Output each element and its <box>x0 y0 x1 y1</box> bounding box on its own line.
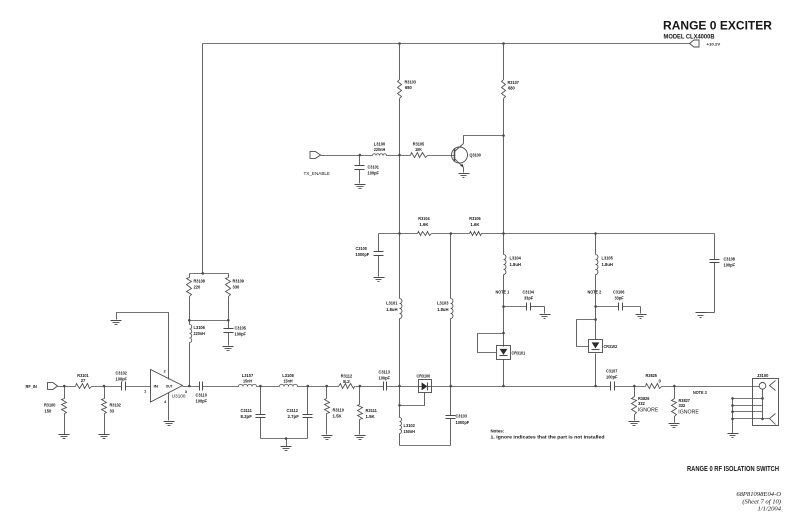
svg-text:R3107: R3107 <box>508 80 520 85</box>
wire: L3107 to L3108 <box>257 386 280 388</box>
inductor L3102 <box>400 418 416 435</box>
ground (U3100 pin 4) <box>164 422 175 426</box>
connector J3100 center pin <box>759 381 775 391</box>
inductor L3101 <box>386 299 402 319</box>
resistor R3827 <box>672 387 699 423</box>
ground (C3100) <box>374 278 385 282</box>
wire: bias block bottom rail <box>190 320 229 322</box>
capacitor C3113 <box>379 370 391 391</box>
svg-text:R3106: R3106 <box>469 216 481 221</box>
svg-text:R3109: R3109 <box>233 279 245 284</box>
svg-text:C3108: C3108 <box>724 256 736 261</box>
svg-text:R3108: R3108 <box>194 279 206 284</box>
node: R3827 junction <box>673 385 676 388</box>
notes text <box>491 428 605 439</box>
wire: CR3100 node to C3107 <box>451 386 611 388</box>
svg-text:TX_ENABLE: TX_ENABLE <box>304 171 331 176</box>
svg-text:C3104: C3104 <box>523 289 535 294</box>
wire: mid rail left <box>379 233 418 235</box>
wire: C3113 to CR3100 <box>387 386 419 388</box>
ground (C3105) <box>223 347 234 351</box>
capacitor C3105 <box>224 326 247 346</box>
title: RANGE 0 EXCITER <box>663 21 773 33</box>
svg-text:680: 680 <box>508 86 515 91</box>
wire: R3109 bottom <box>228 297 230 329</box>
svg-text:R3104: R3104 <box>418 216 430 221</box>
caption: RANGE 0 RF ISOLATION SWITCH <box>687 466 779 473</box>
ground (R3102) <box>99 435 110 439</box>
svg-text:332: 332 <box>679 403 686 408</box>
svg-text:L3107: L3107 <box>242 373 254 378</box>
wire: L3105 to CR3102 <box>595 275 597 340</box>
svg-text:1.8uH: 1.8uH <box>437 307 448 312</box>
svg-text:L3108: L3108 <box>282 373 294 378</box>
ground (C3108) <box>696 313 707 318</box>
wire: pin2 ground run <box>117 313 169 380</box>
ground (R3110) <box>322 436 333 440</box>
wire: shield prong 4 <box>733 418 770 420</box>
svg-text:RANGE 0 RF ISOLATION SWITCH: RANGE 0 RF ISOLATION SWITCH <box>687 466 779 473</box>
inductor L3108 <box>280 373 298 386</box>
wire: C3102 to U3100 pin 1 <box>126 386 151 388</box>
wire: +10.2V top supply rail <box>203 43 690 45</box>
resistor R3102 <box>102 387 122 435</box>
wire: R3108 bottom <box>189 297 191 325</box>
node: shield j3 <box>731 410 734 413</box>
svg-text:IGNORE: IGNORE <box>678 410 699 416</box>
resistor R3826 <box>632 387 659 421</box>
ground (C3111/C3112) <box>281 447 292 451</box>
transistor Q3100 <box>452 144 482 168</box>
pin 1 label <box>144 389 147 394</box>
wire: C3110 to L3107 <box>203 386 239 388</box>
wire: center pin stem <box>762 390 764 399</box>
resistor R3103 <box>398 79 417 99</box>
svg-text:NOTE 2: NOTE 2 <box>588 289 602 294</box>
svg-text:R3110: R3110 <box>333 408 345 413</box>
svg-text:L3103: L3103 <box>437 301 449 306</box>
inductor L3104 <box>504 255 522 275</box>
node: R3102 junction <box>103 385 106 388</box>
svg-text:C3101: C3101 <box>368 164 380 169</box>
svg-text:100pF: 100pF <box>724 263 736 268</box>
node: shield j2 <box>731 404 734 407</box>
wire: pin 4 to ground <box>168 393 170 421</box>
svg-text:L3102: L3102 <box>404 423 416 428</box>
node: shield j6 <box>761 418 764 421</box>
svg-text:R3100: R3100 <box>44 402 56 407</box>
node: C3106 junction <box>594 305 597 308</box>
svg-text:27: 27 <box>81 378 86 383</box>
connector J3100 body <box>753 373 779 426</box>
svg-text:C3102: C3102 <box>116 370 128 375</box>
capacitor C3102 <box>116 370 128 390</box>
capacitor C3110 <box>196 382 208 404</box>
wire: C3111/C3112 bottom tie <box>261 438 308 440</box>
node: L3102 branch junction <box>398 385 401 388</box>
svg-text:1.6K: 1.6K <box>419 222 429 227</box>
wire: L3103 to main rail <box>450 319 452 387</box>
svg-text:1.8uH: 1.8uH <box>386 307 397 312</box>
wire: x=503.5 rail to L3104 <box>503 234 505 255</box>
wire: L3108 to R3112 <box>298 386 339 388</box>
wire: shield prong 1 <box>733 398 763 400</box>
wire: tie to ground <box>286 439 288 447</box>
wire: shield left column <box>732 399 734 434</box>
wire: CR3100 return stub <box>400 393 425 406</box>
note 3 label <box>693 390 707 395</box>
svg-text:CR3101: CR3101 <box>512 350 526 355</box>
resistor R3110 <box>325 387 345 435</box>
node: C3104 junction <box>502 305 505 308</box>
svg-text:CR3100: CR3100 <box>417 374 431 379</box>
ground (Q3100 emitter) <box>459 174 470 178</box>
pin 2 label <box>164 369 167 374</box>
node: shield j5 <box>761 397 764 400</box>
node: mid rail x=399.5 <box>398 232 401 235</box>
resistor R3107 <box>502 80 520 100</box>
svg-text:NOTE 3: NOTE 3 <box>693 390 707 395</box>
ground (R3100) <box>59 435 70 439</box>
node: mid rail x=503.5 <box>502 232 505 235</box>
resistor R3101 <box>76 373 92 389</box>
svg-text:1.6K: 1.6K <box>470 222 480 227</box>
wire: emitter to ground <box>463 168 465 173</box>
wire: L3101 to main rail <box>399 319 401 387</box>
resistor R3109 <box>226 274 245 297</box>
diode CR3101 <box>497 346 526 360</box>
node: R3826 junction <box>633 385 636 388</box>
svg-text:10K: 10K <box>415 147 423 152</box>
svg-text:R3111: R3111 <box>366 408 378 413</box>
svg-text:C3100: C3100 <box>356 246 368 251</box>
wire: R3105 to Q3100 base <box>428 155 455 157</box>
ground (R3111) <box>355 436 366 440</box>
wire: L3103 branch upper <box>450 234 452 299</box>
node: bias bottom left <box>188 319 191 322</box>
svg-text:C3107: C3107 <box>606 369 618 374</box>
subtitle: MODEL CLX4000B <box>664 34 715 41</box>
capacitor C3111 <box>241 387 266 439</box>
svg-text:15nH: 15nH <box>283 379 292 384</box>
svg-text:L3100: L3100 <box>374 141 386 146</box>
inductor L3107 <box>239 373 257 386</box>
node: bias top junction <box>202 272 205 275</box>
svg-text:150: 150 <box>45 408 52 413</box>
diode CR3100 <box>417 374 432 393</box>
svg-text:100pF: 100pF <box>116 376 128 381</box>
svg-text:L3101: L3101 <box>386 301 398 306</box>
svg-text:680: 680 <box>405 85 412 90</box>
op-amp U3100 <box>151 370 187 403</box>
capacitor C3106 <box>596 289 641 313</box>
svg-text:C3106: C3106 <box>613 289 625 294</box>
svg-text:C3113: C3113 <box>379 370 391 375</box>
svg-text:8.2pF: 8.2pF <box>241 414 253 419</box>
wire: shield right column <box>762 399 764 419</box>
resistor R3825 <box>646 373 662 389</box>
svg-text:Notes:: Notes: <box>491 428 505 433</box>
svg-text:33pF: 33pF <box>615 296 624 301</box>
svg-text:OUT: OUT <box>166 384 173 389</box>
node: CR3102 loop junction <box>594 318 597 321</box>
svg-text:NOTE 1: NOTE 1 <box>496 289 510 294</box>
node: CR3101 rail junction <box>502 385 505 388</box>
svg-text:150nH: 150nH <box>404 429 415 434</box>
node: C3111 junction <box>259 385 262 388</box>
wire: CR3101 loop <box>478 334 504 353</box>
wire: L3100 to R3105 <box>387 155 411 157</box>
svg-text:2.7pF: 2.7pF <box>288 414 300 419</box>
wire: R3101 to C3102 <box>92 386 122 388</box>
svg-text:L3106: L3106 <box>194 325 206 330</box>
node: top rail / R3103 branch <box>398 42 401 45</box>
svg-text:220nH: 220nH <box>194 331 205 336</box>
node: CR3102 rail junction <box>594 385 597 388</box>
svg-text:330: 330 <box>233 284 240 289</box>
svg-text:100pF: 100pF <box>379 376 391 381</box>
wire: collector run <box>464 136 504 144</box>
svg-text:(Sheet 7 of 10): (Sheet 7 of 10) <box>742 498 781 505</box>
svg-text:U3100: U3100 <box>172 394 186 399</box>
wire: mid rail right <box>482 233 715 235</box>
node: mid rail x=595.6 <box>594 232 597 235</box>
node: C3103 branch junction <box>450 385 453 388</box>
wire: left feedback drop x=203 <box>202 44 204 274</box>
wire: U3100 output <box>183 386 200 388</box>
connector J3100 shield contact <box>770 414 776 425</box>
svg-text:C3110: C3110 <box>196 392 208 397</box>
svg-text:220: 220 <box>194 284 201 289</box>
wire: R3104 to R3106 <box>432 233 470 235</box>
wire: R3112 to C3113 <box>355 386 384 388</box>
svg-text:R3825: R3825 <box>646 373 658 378</box>
svg-text:MODEL CLX4000B: MODEL CLX4000B <box>664 34 715 41</box>
wire: bottom return tie <box>400 445 451 447</box>
node: C3112 junction <box>307 385 310 388</box>
svg-text:C3111: C3111 <box>241 408 253 413</box>
node: shield j1 <box>731 397 734 400</box>
svg-text:220nH: 220nH <box>374 147 385 152</box>
resistor R3106 <box>469 216 481 236</box>
svg-text:CR3102: CR3102 <box>604 344 618 349</box>
ground (R3827) <box>669 424 680 428</box>
resistor R3105 <box>411 141 428 157</box>
svg-text:+10.2V: +10.2V <box>707 41 721 46</box>
wire: RF_IN to R3100 node <box>58 386 76 388</box>
ground (C3106) <box>636 315 647 319</box>
svg-text:1.8uH: 1.8uH <box>510 262 521 267</box>
resistor R3108 <box>187 274 206 297</box>
ground (C3104) <box>540 315 551 319</box>
capacitor C3104 <box>504 289 545 313</box>
svg-text:100pF: 100pF <box>196 398 208 403</box>
capacitor C3101 <box>355 156 380 184</box>
wire: x=399.5 between rail and L3102 <box>399 387 401 418</box>
wire: x=595.6 rail to L3105 <box>595 234 597 255</box>
node: TX enable junction <box>398 154 401 157</box>
node: C3101 junction <box>359 154 362 157</box>
svg-text:33pF: 33pF <box>524 296 533 301</box>
node: output / L3106 junction <box>188 385 191 388</box>
ground (U3100 pin 2) <box>111 321 122 325</box>
svg-text:R3102: R3102 <box>110 402 122 407</box>
wire: bias block top rail <box>190 273 229 275</box>
resistor R3100 <box>44 387 67 435</box>
capacitor C3103 <box>446 387 470 446</box>
svg-text:1.5K: 1.5K <box>333 413 343 418</box>
wire: shield prong 3 <box>733 411 763 413</box>
svg-text:332: 332 <box>638 401 645 406</box>
wire: L3106 to U3100 output <box>189 343 191 387</box>
svg-text:L3105: L3105 <box>602 256 614 261</box>
diode CR3102 <box>589 340 618 353</box>
inductor L3105 <box>596 255 614 275</box>
wire: CR3102 loop <box>577 320 596 347</box>
node: R3110 junction <box>325 385 328 388</box>
docnumber block <box>736 491 781 513</box>
svg-text:R3105: R3105 <box>413 141 425 146</box>
svg-text:1/1/2004: 1/1/2004 <box>758 506 782 513</box>
capacitor C3100 <box>356 234 384 277</box>
node: R3111 junction <box>359 385 362 388</box>
svg-text:33: 33 <box>110 408 115 413</box>
resistor R3111 <box>358 387 378 435</box>
inductor L3100 <box>373 141 387 155</box>
node: stub junction <box>398 404 401 407</box>
svg-text:R3103: R3103 <box>405 79 417 84</box>
svg-text:C3105: C3105 <box>235 326 247 331</box>
node: shield j4 <box>731 418 734 421</box>
node: L3103 branch junction <box>450 232 453 235</box>
resistor R3104 <box>418 216 432 236</box>
wire: shield prong 2 <box>733 405 763 407</box>
wire: x=399.5 rail to L3101 <box>399 234 401 299</box>
node: top rail / R3107 branch <box>502 42 505 45</box>
pin 4 label <box>164 399 167 404</box>
svg-text:1.5K: 1.5K <box>366 414 376 419</box>
ground (C3101) <box>355 185 366 189</box>
capacitor C3112 <box>287 387 313 439</box>
capacitor C3107 <box>606 369 618 391</box>
resistor R3112 <box>339 374 355 389</box>
wire: L3104 to CR3101 <box>503 275 505 347</box>
svg-text:100pF: 100pF <box>368 171 380 176</box>
wire: R3107 to y=233 rail <box>503 100 505 234</box>
svg-text:J3100: J3100 <box>757 373 769 378</box>
ground (R3826) <box>629 422 640 426</box>
wire: TX_ENABLE to L3100 <box>321 155 373 157</box>
svg-text:C3112: C3112 <box>287 408 299 413</box>
svg-text:15nH: 15nH <box>243 379 252 384</box>
svg-text:1000pF: 1000pF <box>356 252 370 257</box>
svg-text:8.2: 8.2 <box>343 379 350 384</box>
svg-text:1. Ignore indicates that the p: 1. Ignore indicates that the part is not… <box>491 435 605 440</box>
inductor L3103 <box>437 299 453 319</box>
svg-text:IN: IN <box>154 384 159 389</box>
svg-text:100pF: 100pF <box>606 375 618 380</box>
wire: CR3101 to main rail <box>503 360 505 387</box>
note 2 label <box>588 289 602 294</box>
wire: x=503.5 top drop <box>503 44 505 80</box>
node: CR3101 loop junction <box>502 332 505 335</box>
node: bottom tie center <box>285 437 288 440</box>
inductor L3106 <box>190 325 206 343</box>
input terminal RF_IN <box>26 383 58 390</box>
input terminal TX_ENABLE <box>304 152 331 176</box>
svg-text:68P81098E04-O: 68P81098E04-O <box>736 491 781 498</box>
svg-text:RANGE 0 EXCITER: RANGE 0 EXCITER <box>663 21 773 33</box>
pin 3 label <box>185 389 188 394</box>
node: R3100 junction <box>63 385 66 388</box>
svg-text:C3103: C3103 <box>456 414 468 419</box>
capacitor C3108 <box>701 234 736 313</box>
note 1 label <box>496 289 510 294</box>
wire: R3825 to J3100 <box>662 386 760 388</box>
wire: R3103 to y=233 rail <box>399 100 401 234</box>
wire: C3107 to R3825 <box>615 386 646 388</box>
svg-text:1000pF: 1000pF <box>456 420 470 425</box>
ground (J3100 shield) <box>728 434 739 438</box>
svg-text:Q3100: Q3100 <box>470 153 482 158</box>
power terminal +10.2V <box>690 40 721 47</box>
wire: L3102 bottom <box>399 434 401 446</box>
svg-text:1.8uH: 1.8uH <box>602 262 613 267</box>
svg-text:IGNORE: IGNORE <box>638 408 659 414</box>
node: collector junction <box>502 134 505 137</box>
wire: CR3100 to C3103 node <box>432 386 451 388</box>
wire: CR3102 to main rail <box>595 354 597 387</box>
svg-text:100pF: 100pF <box>235 332 247 337</box>
node: bias bottom right <box>227 319 230 322</box>
wire: x=399.5 top drop <box>399 44 401 80</box>
svg-text:L3104: L3104 <box>510 256 522 261</box>
svg-text:RF_IN: RF_IN <box>26 384 37 389</box>
